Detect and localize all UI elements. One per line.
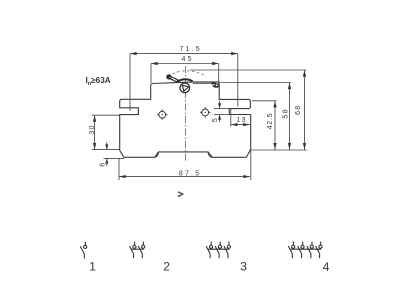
- lever alternate position (dashed arc): [173, 71, 207, 77]
- svg-text:2: 2: [163, 260, 170, 274]
- dim 5 extension lines: [214, 108, 230, 110]
- latch circle: [215, 84, 218, 87]
- dim 71.5 extension lines: [129, 54, 131, 111]
- pole symbol group 4: [288, 242, 322, 259]
- pole symbol group 1: [80, 242, 86, 259]
- mounting hole right: [200, 107, 210, 117]
- 42.5 arrows: [273, 101, 276, 107]
- latch hook: [212, 83, 219, 87]
- 58 arrows: [288, 83, 291, 89]
- dim 30 line: [94, 115, 96, 149]
- svg-text:30: 30: [89, 124, 96, 134]
- svg-text:45: 45: [182, 56, 194, 63]
- svg-text:42.5: 42.5: [267, 113, 274, 130]
- dimension texts: [89, 46, 302, 178]
- 6 arrows (outside): [105, 144, 108, 149]
- arrowheads: [93, 52, 306, 178]
- lever tip ring: [167, 75, 171, 79]
- svg-text:6: 6: [99, 163, 106, 167]
- dim 13 line: [231, 124, 250, 126]
- dim 45 line: [151, 63, 219, 65]
- toggle lever arm: [169, 77, 178, 81]
- 87.5 arrows: [119, 175, 125, 178]
- 71.5 arrows: [130, 52, 136, 55]
- pivot screw circle: [180, 83, 190, 93]
- 13 arrows: [231, 123, 237, 126]
- centerline vertical: [184, 66, 186, 161]
- dim 68 line: [304, 70, 306, 150]
- svg-text:3: 3: [240, 260, 247, 274]
- right dims bottom extension line: [249, 149, 307, 151]
- dim 58 line: [289, 83, 291, 151]
- 68 arrows: [303, 70, 306, 76]
- 30 arrows: [93, 115, 96, 121]
- svg-text:13: 13: [237, 117, 247, 124]
- dim 30 extension lines: [92, 114, 120, 116]
- dim 6 arrows shafts: [106, 142, 108, 150]
- pivot triangle: [182, 85, 188, 91]
- lever dome: [177, 79, 193, 82]
- dim 58 extension line top: [221, 82, 292, 84]
- dim 42.5 line: [274, 101, 276, 150]
- svg-text:4: 4: [323, 260, 330, 274]
- bottom notch left step: [155, 152, 159, 157]
- pole symbol group 3: [206, 242, 230, 259]
- dim 68 extension line top: [190, 69, 307, 71]
- dim 5 arrow shafts: [219, 101, 221, 108]
- svg-text:In≥63A: In≥63A: [86, 76, 111, 87]
- svg-text:5: 5: [212, 118, 219, 122]
- dim 42.5 extension line top: [252, 100, 277, 102]
- svg-text:1: 1: [89, 260, 96, 274]
- latch ledge line: [193, 82, 212, 84]
- dim 45 extension lines: [150, 64, 152, 84]
- mounting hole left: [157, 110, 167, 120]
- svg-text:68: 68: [295, 105, 302, 115]
- body outline: [120, 82, 251, 157]
- dim 6 extension line: [104, 157, 125, 159]
- dim 71.5 line: [130, 53, 238, 55]
- pole symbol group 2: [130, 242, 145, 259]
- 5 arrows (outside): [218, 103, 221, 108]
- dim 87.5 extension lines: [118, 159, 120, 181]
- dim 87.5 line: [119, 176, 250, 178]
- svg-text:71.5: 71.5: [179, 46, 201, 53]
- bottom notch right step: [208, 152, 213, 157]
- dim 13 extension line: [230, 109, 232, 127]
- svg-text:87.5: 87.5: [179, 170, 201, 177]
- greater-than mark: [178, 192, 183, 197]
- 45 arrows: [151, 62, 157, 65]
- svg-text:58: 58: [283, 108, 290, 118]
